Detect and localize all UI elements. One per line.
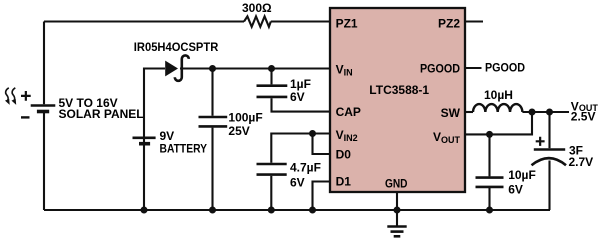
junction node SW/VOUT riser	[529, 109, 536, 116]
wire top rail left segment	[44, 20, 244, 22]
junction node VOUT/10uF	[486, 131, 493, 138]
svg-text:2.5V: 2.5V	[571, 109, 596, 123]
wire GND pin stub down to ground symbol	[396, 192, 398, 227]
svg-text:10µF: 10µF	[508, 168, 536, 182]
svg-text:BATTERY: BATTERY	[160, 142, 208, 156]
svg-text:SOLAR PANEL: SOLAR PANEL	[59, 107, 144, 121]
junction node SW/3F riser	[546, 109, 553, 116]
svg-text:LTC3588-1: LTC3588-1	[369, 83, 429, 97]
wire VOUT pin net	[465, 112, 532, 134]
svg-text:PGOOD: PGOOD	[420, 62, 460, 76]
label solar plus	[21, 91, 31, 101]
junction node rail/4.7uF	[268, 207, 275, 214]
svg-text:SW: SW	[441, 106, 461, 120]
solar light arrow 1	[6, 88, 9, 102]
wire 100uF branch vertical	[211, 69, 213, 211]
wire VIN2 net horizontal and 4.7uF branch	[271, 134, 330, 211]
wire D1 to ground rail	[313, 182, 331, 211]
junction node rail/100uF	[209, 207, 216, 214]
junction node diode/100uF	[209, 65, 216, 72]
svg-text:2.7V: 2.7V	[569, 155, 594, 169]
junction node rail/D1	[309, 207, 316, 214]
svg-text:D0: D0	[336, 147, 352, 161]
wire 10uF branch vertical	[488, 134, 490, 210]
svg-text:4.7µF: 4.7µF	[290, 161, 321, 175]
svg-text:GND: GND	[385, 177, 408, 191]
svg-text:D1: D1	[336, 174, 352, 188]
capacitor C3 4.7uF plates	[257, 164, 287, 175]
wire battery branch up to diode line	[144, 69, 165, 211]
wire SW stub	[465, 111, 473, 113]
diode D2 cathode curl	[175, 55, 189, 80]
wire PZ2 stub	[465, 20, 483, 22]
svg-text:IR05H4OCSPTR: IR05H4OCSPTR	[134, 40, 219, 54]
wire left vertical from top rail to solar panel	[43, 22, 45, 105]
svg-text:6V: 6V	[508, 183, 523, 197]
wire SW line to VOUT terminal	[522, 111, 569, 113]
svg-text:6V: 6V	[290, 175, 305, 189]
wire diode line to VIN pin	[180, 67, 330, 69]
wire 1uF branch and CAP pin wire	[272, 69, 331, 112]
op-amp block U1 LTC3588-1 body	[330, 8, 465, 192]
svg-text:6V: 6V	[290, 90, 305, 104]
svg-text:9V: 9V	[160, 129, 175, 143]
junction node VIN2/D0	[309, 130, 316, 137]
capacitor C5 3F plates	[534, 148, 565, 151]
solar light arrow 2	[12, 88, 15, 102]
svg-text:PZ2: PZ2	[438, 17, 460, 31]
junction node rail/10uF	[486, 207, 493, 214]
resistor R 300 zigzag	[244, 16, 271, 26]
svg-text:1µF: 1µF	[290, 77, 311, 91]
wire VIN2 to D0 link	[313, 134, 331, 155]
solar panel cell plates	[31, 104, 56, 107]
junction node rail/battery	[141, 207, 148, 214]
wire top rail right segment to PZ1	[271, 20, 330, 22]
svg-text:10µH: 10µH	[484, 88, 513, 102]
junction node rail/GND	[394, 207, 401, 214]
svg-text:PZ1: PZ1	[336, 17, 358, 31]
battery B1 9V plates	[133, 137, 156, 140]
wire PGOOD stub	[465, 67, 482, 69]
capacitor C1 100uF plates	[199, 117, 228, 126]
label solar minus	[21, 116, 30, 118]
svg-text:CAP: CAP	[336, 105, 361, 119]
diode D2 IR05H4OCSPTR triangle	[165, 61, 178, 77]
junction node diode/1uF	[268, 65, 275, 72]
ground symbol	[387, 227, 406, 237]
capacitor C4 10uF plates	[476, 178, 504, 187]
label 3F plus	[536, 137, 545, 146]
wire bottom ground rail	[44, 209, 550, 211]
svg-text:PGOOD: PGOOD	[485, 60, 525, 74]
svg-text:100µF: 100µF	[228, 110, 262, 124]
inductor L 10uH coils	[473, 104, 522, 112]
svg-text:300Ω: 300Ω	[242, 1, 272, 15]
wire 3F branch vertical	[548, 112, 550, 210]
wire below solar panel to bottom rail	[43, 113, 45, 210]
svg-text:25V: 25V	[228, 124, 249, 138]
capacitor C2 1uF plates	[257, 86, 288, 97]
